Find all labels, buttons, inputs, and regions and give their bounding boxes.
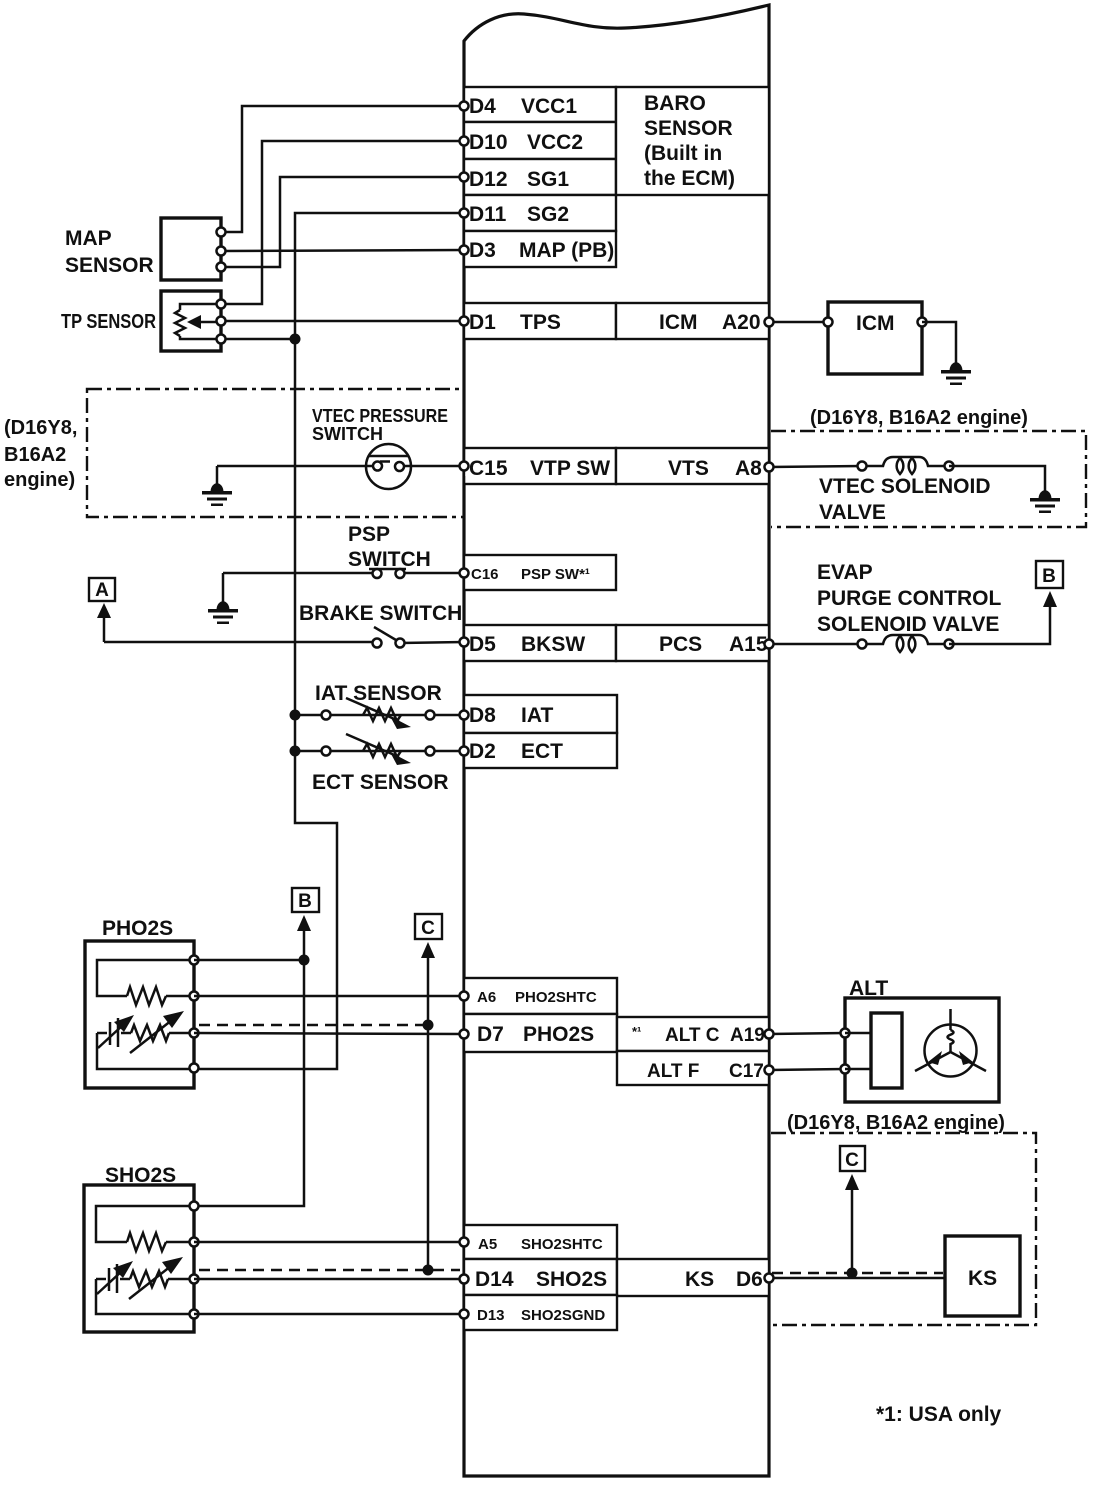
- svg-text:ECT SENSOR: ECT SENSOR: [312, 771, 449, 794]
- shield dashed line KS: [772, 1272, 943, 1275]
- brake switch S3 (open): [373, 627, 405, 648]
- svg-text:C: C: [845, 1150, 859, 1171]
- wire ALT F net: [769, 1069, 845, 1070]
- svg-text:A5: A5: [478, 1236, 497, 1253]
- right engine-variant dash-dot box (VTEC): [771, 431, 1086, 527]
- pin row D10 VCC2: [464, 122, 616, 159]
- PSP switch S2 (closed): [369, 569, 406, 578]
- ground at ICM: [922, 322, 971, 385]
- node junction ECT/SG2: [290, 746, 301, 757]
- svg-text:IAT: IAT: [521, 704, 553, 727]
- connector label C (right): [840, 1146, 865, 1171]
- wire TP pin3 stub: [221, 338, 295, 341]
- pin row D1 TPS: [464, 303, 616, 339]
- pin row PCS A15: [616, 625, 769, 661]
- solenoid coil L1 (VTEC): [858, 457, 954, 474]
- wire D1 net (TP wiper to D1): [221, 320, 464, 323]
- node junction C/PHO2S shield: [423, 1020, 434, 1031]
- pin row KS D6: [617, 1259, 769, 1296]
- svg-text:MAP (PB): MAP (PB): [519, 239, 614, 262]
- svg-text:ALT C: ALT C: [665, 1025, 720, 1046]
- svg-text:A15: A15: [729, 633, 768, 656]
- svg-text:VTEC PRESSURE: VTEC PRESSURE: [312, 406, 448, 426]
- PHO2S pins: [190, 956, 199, 1073]
- wire SG2 net D11 trunk: [194, 213, 464, 1069]
- wire D3 net (MAP pin2 to D3): [221, 250, 464, 251]
- thermistor ECT: [322, 734, 435, 765]
- svg-text:C16: C16: [471, 566, 499, 583]
- pin row C16 PSP SW*1: [464, 555, 616, 590]
- svg-text:BARO: BARO: [644, 92, 706, 115]
- node junction C/SHO2S shield: [423, 1265, 434, 1276]
- node junction IAT/SG2: [290, 710, 301, 721]
- svg-text:SOLENOID VALVE: SOLENOID VALVE: [817, 613, 999, 636]
- wire D12 net (MAP pin3 to D12): [221, 177, 464, 267]
- EVAP purge control solenoid valve label: [817, 561, 1002, 636]
- pin row A5 SHO2SHTC: [464, 1225, 617, 1259]
- shield dashed line PHO2S: [199, 1024, 428, 1027]
- right engine-variant dash-dot box (KS): [771, 1133, 1036, 1325]
- wire PHO2S heater+ to B: [194, 959, 304, 962]
- svg-text:D6: D6: [736, 1268, 763, 1291]
- arrow to A: [97, 603, 111, 642]
- svg-text:ALT F: ALT F: [647, 1061, 699, 1082]
- svg-text:A: A: [95, 580, 109, 601]
- pin row *1 ALT C A19: [617, 1017, 769, 1051]
- pin row D2 ECT: [464, 733, 617, 768]
- svg-text:D7: D7: [477, 1023, 504, 1046]
- node junction B/PHO2S: [299, 955, 310, 966]
- svg-text:SHO2SHTC: SHO2SHTC: [521, 1236, 603, 1253]
- ICM module box: [824, 302, 927, 374]
- arrow to C (right): [845, 1174, 859, 1274]
- svg-text:the ECM): the ECM): [644, 167, 735, 190]
- wire SHO2SGND net: [194, 1313, 464, 1316]
- MAP sensor box: [161, 218, 221, 280]
- wire SHO2S signal net: [194, 1278, 464, 1281]
- svg-text:B16A2: B16A2: [4, 444, 66, 466]
- svg-text:BKSW: BKSW: [521, 633, 585, 656]
- pin row ALT F C17: [617, 1051, 769, 1085]
- heater resistor in PHO2S: [97, 960, 194, 1005]
- svg-text:D2: D2: [469, 740, 496, 763]
- svg-text:MAP: MAP: [65, 227, 112, 250]
- svg-text:PHO2S: PHO2S: [102, 917, 173, 940]
- svg-text:(D16Y8, B16A2 engine): (D16Y8, B16A2 engine): [810, 407, 1028, 429]
- PSP switch label: [348, 523, 431, 571]
- pin row D11 SG2: [464, 195, 616, 231]
- wire and arrow to B (right): [949, 591, 1057, 644]
- PHO2S sensor box: [85, 941, 194, 1088]
- wire KS net: [769, 1277, 945, 1280]
- svg-text:C: C: [421, 918, 435, 939]
- svg-text:SWITCH: SWITCH: [312, 424, 383, 444]
- wire D4 net (MAP pin1 to D4): [221, 106, 464, 232]
- wire PCS net: [769, 643, 862, 646]
- svg-text:D10: D10: [469, 131, 508, 154]
- svg-text:*¹: *¹: [632, 1024, 641, 1039]
- svg-text:A6: A6: [477, 989, 496, 1006]
- alternator box ALT: [841, 998, 1000, 1102]
- svg-text:ECT: ECT: [521, 740, 563, 763]
- VTEC solenoid valve label: [819, 475, 991, 524]
- svg-text:PSP: PSP: [348, 523, 390, 546]
- pin row D7 PHO2S: [464, 1014, 617, 1052]
- pin row A6 PHO2SHTC: [464, 978, 617, 1014]
- svg-text:D14: D14: [475, 1268, 514, 1291]
- svg-text:(Built in: (Built in: [644, 142, 722, 165]
- ground at PSP switch: [208, 573, 238, 624]
- SHO2S pins: [190, 1202, 199, 1319]
- svg-text:SENSOR: SENSOR: [65, 254, 154, 277]
- svg-text:PSP SW*¹: PSP SW*¹: [521, 566, 590, 583]
- pin row D12 SG1: [464, 159, 616, 195]
- wire SHO2SHTC net: [194, 1241, 464, 1244]
- svg-text:PURGE CONTROL: PURGE CONTROL: [817, 587, 1002, 610]
- pin row D3 MAP (PB): [464, 231, 616, 267]
- wire VTS net: [769, 466, 862, 467]
- svg-text:KS: KS: [685, 1268, 714, 1291]
- svg-text:VCC2: VCC2: [527, 131, 583, 154]
- pin row D14 SHO2S: [464, 1259, 617, 1295]
- svg-text:C15: C15: [469, 457, 508, 480]
- ECM right edge pins: [765, 318, 774, 1283]
- pin row D4 VCC1: [464, 87, 616, 122]
- svg-text:PCS: PCS: [659, 633, 702, 656]
- svg-text:D1: D1: [469, 311, 496, 334]
- svg-text:SWITCH: SWITCH: [348, 548, 431, 571]
- pin row ICM A20: [616, 303, 769, 339]
- connector label C (mid): [415, 914, 442, 939]
- svg-text:A19: A19: [730, 1025, 765, 1046]
- svg-text:A20: A20: [722, 311, 761, 334]
- TP sensor box: [161, 291, 221, 351]
- svg-text:PHO2S: PHO2S: [523, 1023, 594, 1046]
- ECM left edge pins: [460, 102, 469, 1319]
- connector label B (left): [292, 888, 319, 912]
- left engine-variant caption: [4, 417, 77, 491]
- svg-text:D8: D8: [469, 704, 496, 727]
- connector label A: [89, 578, 115, 601]
- svg-text:VTEC SOLENOID: VTEC SOLENOID: [819, 475, 991, 498]
- svg-text:PHO2SHTC: PHO2SHTC: [515, 989, 597, 1006]
- knock sensor box KS: [945, 1236, 1020, 1316]
- svg-text:SG2: SG2: [527, 203, 569, 226]
- svg-text:SHO2S: SHO2S: [536, 1268, 607, 1291]
- svg-text:*1: USA only: *1: USA only: [876, 1403, 1002, 1426]
- VTEC pressure switch S1: [366, 444, 411, 489]
- SHO2S sensor box: [84, 1185, 194, 1332]
- pin row D13 SHO2SGND: [464, 1295, 617, 1330]
- svg-text:(D16Y8,: (D16Y8,: [4, 417, 77, 439]
- wire PHO2S signal net: [194, 1033, 464, 1034]
- svg-text:SG1: SG1: [527, 168, 569, 191]
- BARO sensor internal block: [616, 87, 769, 195]
- svg-text:D3: D3: [469, 239, 496, 262]
- wire ECT net: [295, 750, 464, 753]
- svg-text:TP SENSOR: TP SENSOR: [61, 311, 156, 333]
- svg-text:D13: D13: [477, 1307, 505, 1324]
- wire VTP SW net: [217, 465, 464, 468]
- pin row VTS A8: [616, 448, 769, 484]
- svg-text:VALVE: VALVE: [819, 501, 886, 524]
- arrow to B and trunk to SHO2S: [194, 915, 311, 1206]
- node junction C/KS shield: [847, 1268, 858, 1279]
- svg-text:VTS: VTS: [668, 457, 709, 480]
- pin row D8 IAT: [464, 695, 617, 733]
- VTEC pressure switch label: [312, 406, 448, 444]
- svg-text:EVAP: EVAP: [817, 561, 873, 584]
- MAP sensor pins: [217, 228, 226, 272]
- svg-text:BRAKE SWITCH: BRAKE SWITCH: [299, 602, 462, 625]
- solenoid coil L2 (EVAP): [858, 635, 954, 652]
- ground at VTEC pressure switch: [202, 466, 232, 506]
- wire ALT C net: [769, 1033, 845, 1034]
- TP sensor pins: [217, 300, 226, 344]
- svg-text:VCC1: VCC1: [521, 95, 577, 118]
- connector label B (right): [1036, 561, 1063, 588]
- MAP sensor label: [65, 227, 154, 277]
- svg-text:B: B: [1042, 566, 1056, 587]
- potentiometer inside TP sensor: [175, 304, 218, 339]
- ECM body outline U1: [464, 5, 769, 1476]
- svg-text:engine): engine): [4, 469, 75, 491]
- svg-text:D4: D4: [469, 95, 496, 118]
- wire D10 net (TP pin1 to D10): [221, 141, 464, 304]
- svg-text:D12: D12: [469, 168, 508, 191]
- node junction TP/SG2: [290, 334, 301, 345]
- generator symbol in ALT: [915, 1009, 986, 1077]
- wire PHO2SHTC net: [194, 995, 464, 998]
- svg-text:SHO2SGND: SHO2SGND: [521, 1307, 605, 1324]
- wire ICM net: [769, 321, 828, 324]
- thermistor IAT: [322, 698, 435, 729]
- svg-text:SENSOR: SENSOR: [644, 117, 733, 140]
- pin row C15 VTP SW: [464, 448, 616, 484]
- svg-text:C17: C17: [729, 1061, 764, 1082]
- svg-text:D11: D11: [469, 203, 507, 226]
- pin row D5 BKSW: [464, 625, 616, 661]
- svg-text:KS: KS: [968, 1267, 997, 1290]
- shield dashed line SHO2S: [199, 1269, 460, 1272]
- heater resistor in SHO2S: [96, 1206, 194, 1251]
- wire BKSW net: [104, 642, 464, 643]
- left engine-variant dash-dot box: [87, 389, 464, 517]
- svg-text:B: B: [298, 891, 312, 912]
- ground at VTEC solenoid: [949, 466, 1060, 513]
- svg-text:D5: D5: [469, 633, 496, 656]
- arrow to C and trunk to SHO2S shield: [421, 942, 435, 1270]
- wire PSP SW net: [223, 572, 464, 575]
- wire IAT net: [295, 714, 464, 717]
- svg-text:(D16Y8, B16A2 engine): (D16Y8, B16A2 engine): [787, 1112, 1005, 1134]
- oxygen sensing element in SHO2S: [96, 1257, 194, 1314]
- svg-text:TPS: TPS: [520, 311, 561, 334]
- svg-text:ICM: ICM: [659, 311, 698, 334]
- oxygen sensing element in PHO2S: [97, 1011, 194, 1069]
- svg-text:VTP SW: VTP SW: [530, 457, 610, 480]
- svg-text:IAT SENSOR: IAT SENSOR: [315, 682, 442, 705]
- svg-text:ICM: ICM: [856, 312, 895, 335]
- svg-text:A8: A8: [735, 457, 762, 480]
